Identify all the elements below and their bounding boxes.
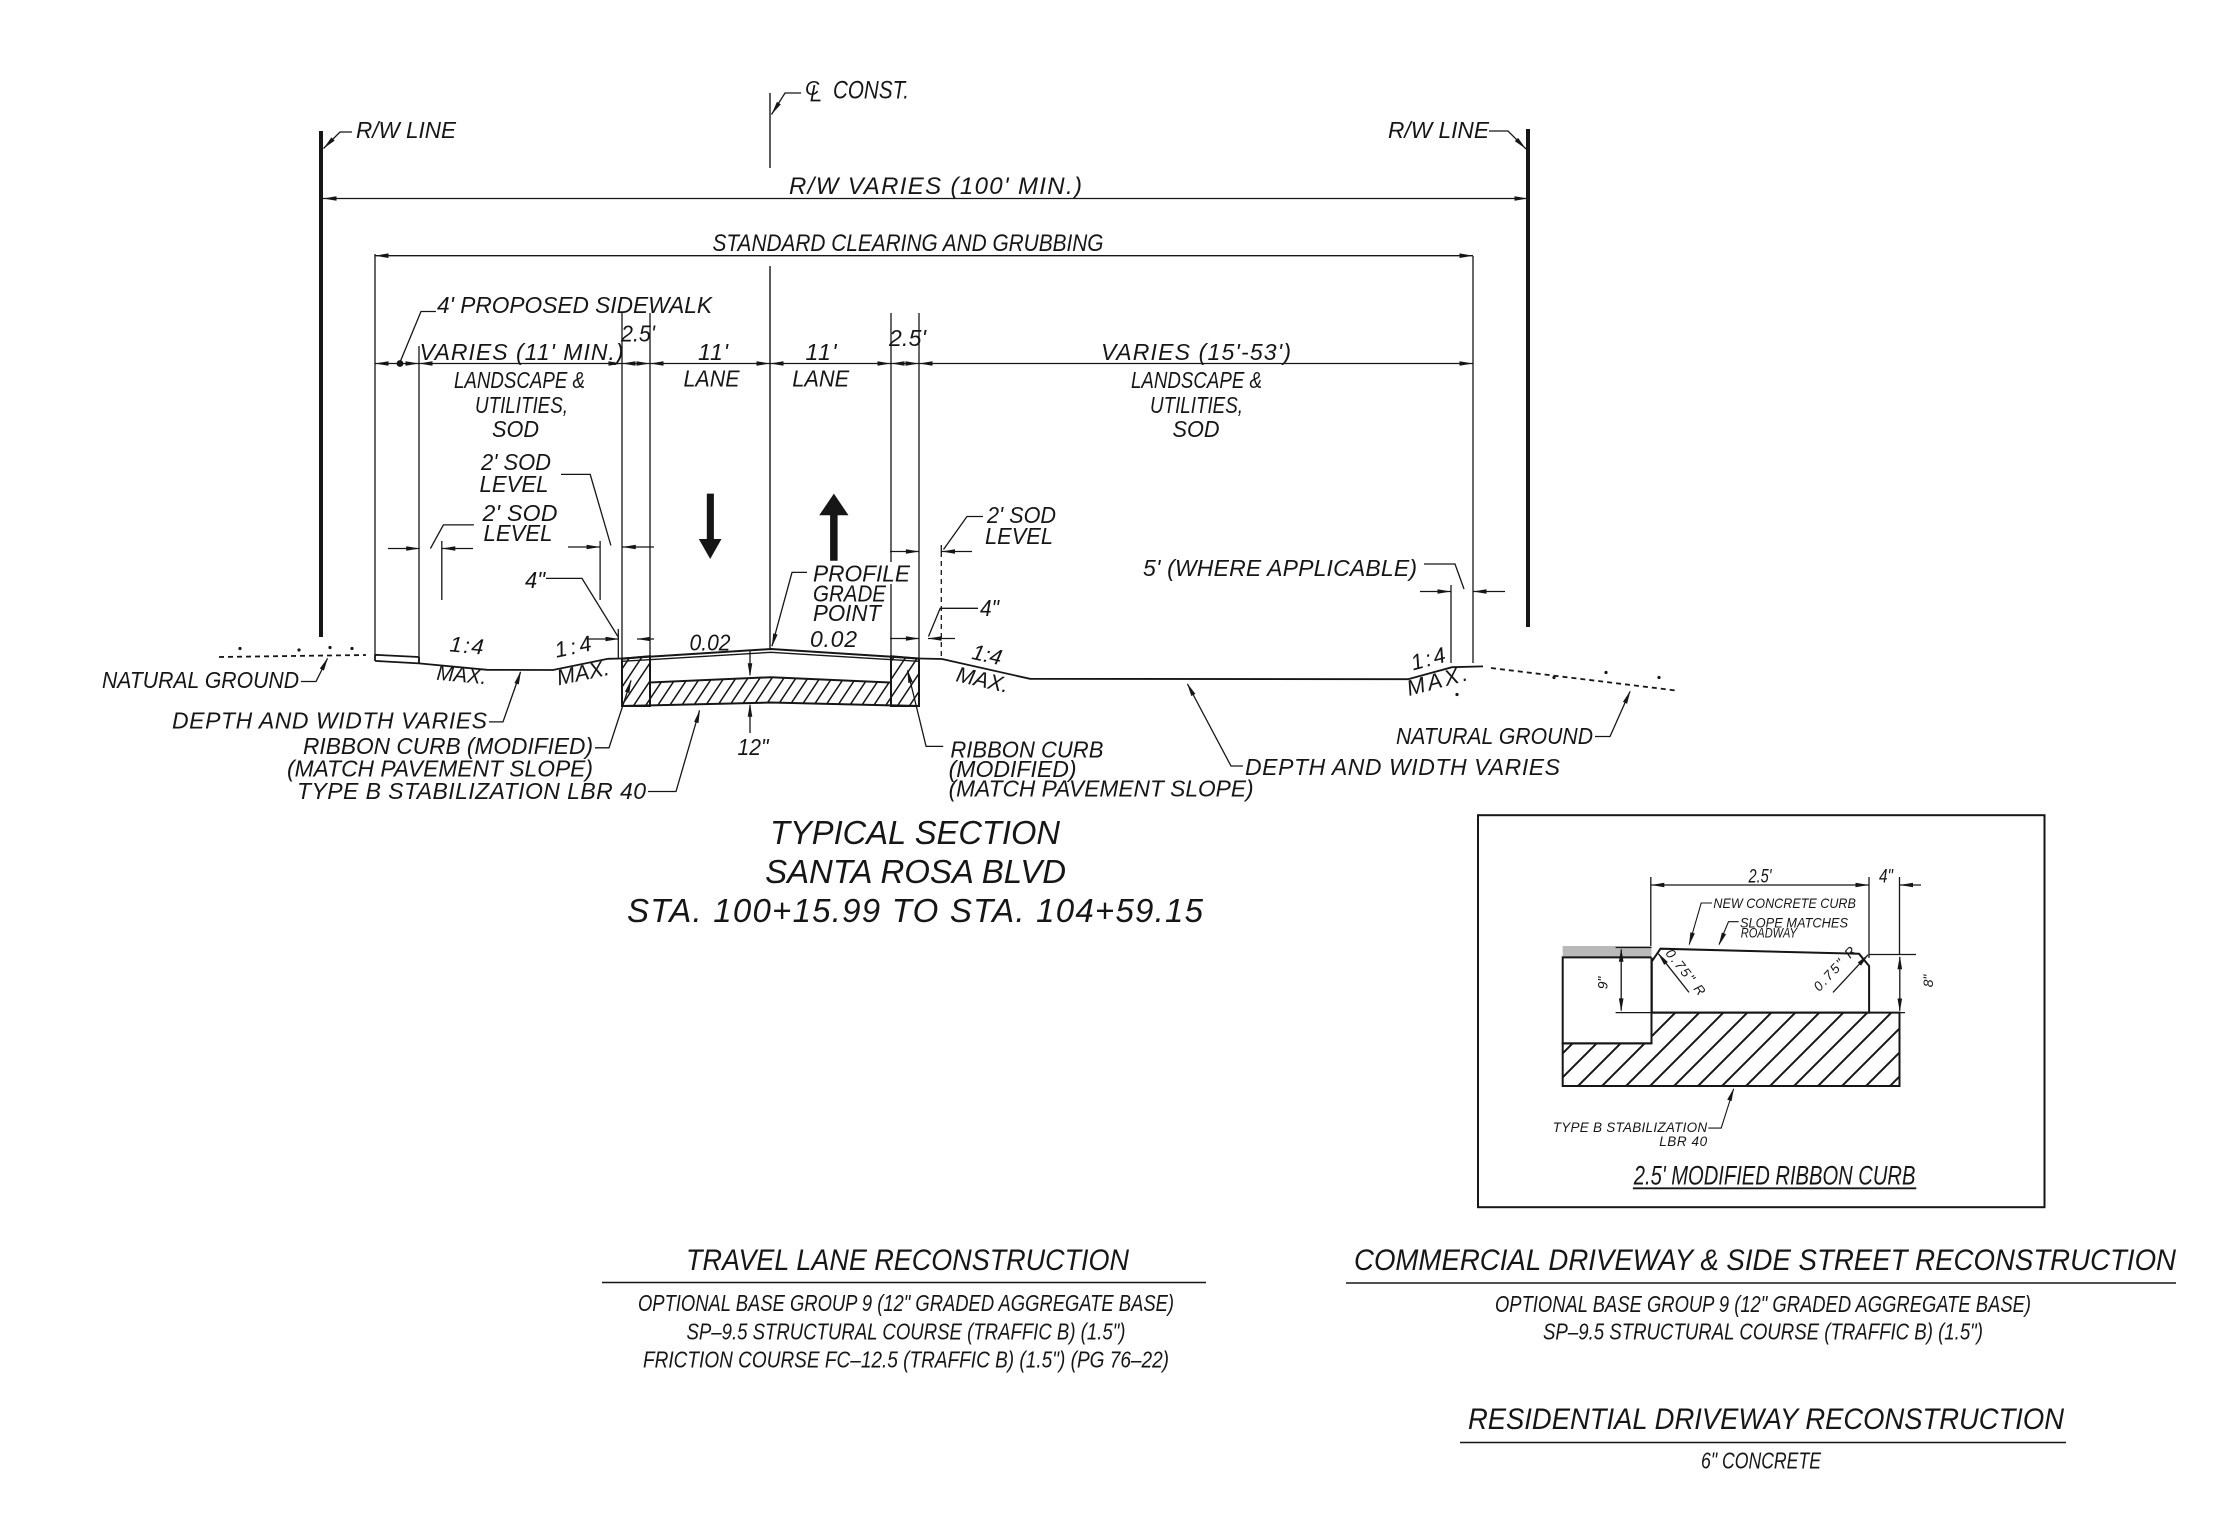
svg-text:SOD: SOD <box>1173 416 1220 442</box>
svg-text:R/W LINE: R/W LINE <box>356 117 457 143</box>
svg-text:TYPICAL SECTION: TYPICAL SECTION <box>770 814 1060 851</box>
svg-text:OPTIONAL BASE GROUP 9 (12" GRA: OPTIONAL BASE GROUP 9 (12" GRADED AGGREG… <box>638 1290 1174 1316</box>
svg-text:CONST.: CONST. <box>833 77 909 105</box>
svg-text:LEVEL: LEVEL <box>480 471 549 497</box>
svg-text:5' (WHERE APPLICABLE): 5' (WHERE APPLICABLE) <box>1143 555 1417 581</box>
svg-text:SOD: SOD <box>492 416 539 442</box>
svg-text:UTILITIES,: UTILITIES, <box>1150 392 1243 418</box>
svg-text:MAX.: MAX. <box>436 660 488 690</box>
svg-text:TRAVEL LANE RECONSTRUCTION: TRAVEL LANE RECONSTRUCTION <box>686 1244 1129 1277</box>
svg-text:2.5' MODIFIED RIBBON CURB: 2.5' MODIFIED RIBBON CURB <box>1633 1161 1915 1191</box>
svg-text:RESIDENTIAL DRIVEWAY RECONSTRU: RESIDENTIAL DRIVEWAY RECONSTRUCTION <box>1468 1403 2064 1436</box>
svg-text:4": 4" <box>980 595 1001 621</box>
svg-text:UTILITIES,: UTILITIES, <box>475 392 568 418</box>
svg-text:0.02: 0.02 <box>810 626 857 652</box>
svg-text:NEW CONCRETE CURB: NEW CONCRETE CURB <box>1713 896 1856 911</box>
svg-text:STA. 100+15.99 TO STA. 104+59.: STA. 100+15.99 TO STA. 104+59.15 <box>627 892 1204 929</box>
svg-text:LEVEL: LEVEL <box>484 520 553 546</box>
svg-text:R/W LINE: R/W LINE <box>1388 117 1490 143</box>
svg-text:11': 11' <box>698 339 730 365</box>
svg-text:SP–9.5 STRUCTURAL COURSE (TRAF: SP–9.5 STRUCTURAL COURSE (TRAFFIC B) (1.… <box>687 1319 1126 1345</box>
svg-text:LBR 40: LBR 40 <box>1659 1134 1707 1149</box>
svg-text:FRICTION COURSE FC–12.5 (TRAFF: FRICTION COURSE FC–12.5 (TRAFFIC B) (1.5… <box>643 1347 1169 1373</box>
svg-text:6" CONCRETE: 6" CONCRETE <box>1701 1448 1821 1474</box>
svg-text:2.5': 2.5' <box>620 321 656 347</box>
svg-text:VARIES (11' MIN.): VARIES (11' MIN.) <box>420 339 624 365</box>
svg-text:TYPE B STABILIZATION LBR 40: TYPE B STABILIZATION LBR 40 <box>297 778 646 804</box>
svg-text:LANE: LANE <box>792 366 850 392</box>
svg-text:NATURAL GROUND: NATURAL GROUND <box>102 667 299 693</box>
svg-text:ROADWAY: ROADWAY <box>1741 926 1799 941</box>
svg-text:4": 4" <box>1879 867 1894 888</box>
svg-text:4' PROPOSED SIDEWALK: 4' PROPOSED SIDEWALK <box>437 292 714 318</box>
svg-text:DEPTH AND WIDTH VARIES: DEPTH AND WIDTH VARIES <box>172 708 488 734</box>
svg-text:VARIES (15'-53'): VARIES (15'-53') <box>1101 339 1291 365</box>
svg-text:4": 4" <box>525 567 547 593</box>
svg-text:LANDSCAPE &: LANDSCAPE & <box>454 367 585 393</box>
svg-text:DEPTH AND WIDTH VARIES: DEPTH AND WIDTH VARIES <box>1245 754 1561 780</box>
svg-text:SANTA ROSA BLVD: SANTA ROSA BLVD <box>765 853 1066 890</box>
svg-text:LEVEL: LEVEL <box>985 523 1053 549</box>
svg-text:OPTIONAL BASE GROUP 9 (12" GRA: OPTIONAL BASE GROUP 9 (12" GRADED AGGREG… <box>1495 1291 2031 1317</box>
svg-text:11': 11' <box>806 339 839 365</box>
svg-text:1:4: 1:4 <box>449 632 485 660</box>
svg-text:NATURAL GROUND: NATURAL GROUND <box>1396 723 1593 749</box>
svg-text:(MATCH PAVEMENT SLOPE): (MATCH PAVEMENT SLOPE) <box>949 776 1254 802</box>
svg-text:TYPE B STABILIZATION: TYPE B STABILIZATION <box>1553 1120 1708 1135</box>
svg-text:POINT: POINT <box>813 600 883 626</box>
svg-text:COMMERCIAL DRIVEWAY & SIDE STR: COMMERCIAL DRIVEWAY & SIDE STREET RECONS… <box>1354 1244 2176 1277</box>
svg-text:LANDSCAPE &: LANDSCAPE & <box>1131 367 1262 393</box>
svg-text:8": 8" <box>1921 974 1936 988</box>
svg-text:2.5': 2.5' <box>888 325 928 351</box>
svg-text:2.5': 2.5' <box>1748 867 1773 888</box>
svg-text:LANE: LANE <box>684 366 741 392</box>
svg-text:9": 9" <box>1596 976 1611 990</box>
svg-text:12": 12" <box>738 734 771 760</box>
svg-text:STANDARD CLEARING AND GRUBBING: STANDARD CLEARING AND GRUBBING <box>713 230 1104 257</box>
svg-text:SP–9.5 STRUCTURAL COURSE (TRAF: SP–9.5 STRUCTURAL COURSE (TRAFFIC B) (1.… <box>1543 1319 1983 1345</box>
